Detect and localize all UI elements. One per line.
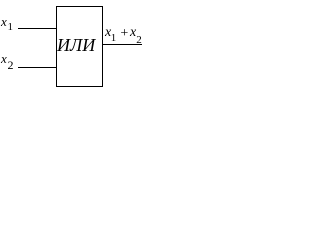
node x1: variable <box>1 15 7 28</box>
wire input x1 <box>18 28 57 30</box>
gate label ИЛИ (OR) <box>57 36 95 54</box>
node x2: subscript 2 <box>8 59 14 71</box>
output expression: subscript 1 <box>111 33 117 44</box>
output expression: second x <box>130 26 136 40</box>
output expression: subscript 2 <box>136 35 142 46</box>
node x2: variable <box>1 52 7 65</box>
wires and gate outline <box>0 0 145 92</box>
OR gate body (rectangle) <box>57 7 103 87</box>
node x1: subscript 1 <box>8 22 14 33</box>
output expression: first x <box>105 26 111 40</box>
wire input x2 <box>18 67 57 69</box>
wire output <box>102 44 142 46</box>
output expression: plus sign <box>120 27 129 41</box>
